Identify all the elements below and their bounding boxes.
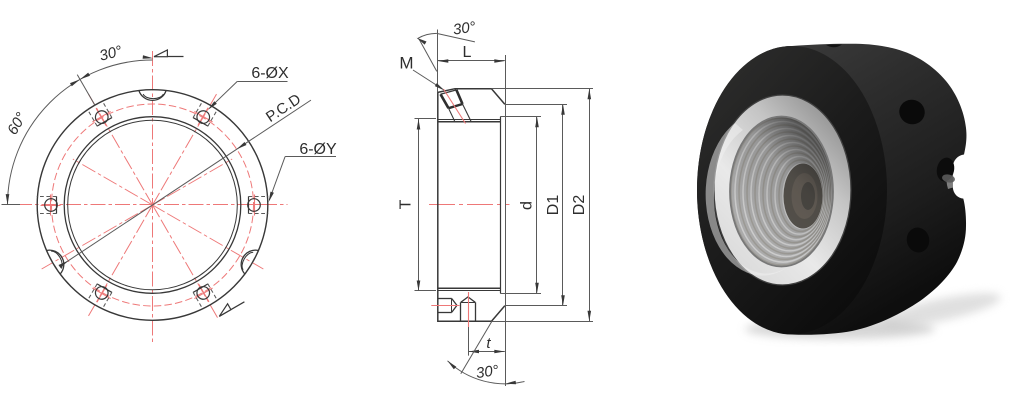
photo body silhouette	[697, 44, 966, 335]
dim 30 deg bottom (hole angle)	[461, 321, 492, 374]
extension line at 180 deg	[2, 204, 21, 206]
photo bore shading	[730, 116, 834, 267]
dim t	[468, 327, 470, 356]
svg-text:30°: 30°	[475, 362, 500, 382]
centerline ray at 120 deg	[89, 94, 145, 190]
section body outline	[438, 89, 505, 322]
centerline ray at 210 deg	[42, 214, 138, 270]
section arrow top	[154, 56, 184, 58]
photo bore highlight crescent	[706, 123, 790, 276]
centerline ray at 60 deg	[161, 94, 217, 190]
svg-text:D1: D1	[545, 195, 562, 216]
centerline ray at 150 deg	[73, 159, 138, 197]
face recess	[500, 117, 502, 293]
centerline ray core at 150 deg	[140, 198, 152, 205]
photo OD hole lower	[904, 225, 931, 254]
dim T	[415, 118, 437, 120]
centerline ray core at 330 deg	[153, 205, 165, 212]
photo thread rings	[731, 118, 832, 265]
front view: locknut face	[2, 43, 338, 345]
radial hole (bottom, with drill point)	[460, 302, 462, 321]
angular dimension arc (30 and 60 deg)	[8, 60, 153, 205]
centerline ray core at 30 deg	[153, 198, 165, 205]
axial hole centerline	[431, 305, 459, 307]
P.C.D leader line (diameter)	[61, 100, 311, 266]
notch Y at 210 deg	[47, 246, 69, 274]
svg-text:P.C.D: P.C.D	[263, 91, 304, 126]
dim D1	[505, 104, 567, 106]
svg-text:M: M	[399, 54, 413, 73]
arc arrowheads at 120 deg	[80, 73, 90, 80]
photo of locknut	[697, 44, 1003, 339]
centerline ray core at 210 deg	[140, 205, 152, 212]
thread bore lines bottom	[438, 287, 500, 289]
photo notch hole	[935, 156, 957, 183]
leader 6-diaY	[285, 156, 336, 158]
svg-text:6-ØY: 6-ØY	[299, 141, 337, 158]
hole X at 180 deg	[37, 195, 61, 216]
M hole centerline	[444, 89, 466, 124]
centerline ray core at 300 deg	[153, 205, 160, 217]
photo bore inner	[784, 164, 823, 229]
photo notch floor highlight	[946, 169, 953, 189]
centerline ray at 300 deg	[161, 220, 218, 319]
dim d	[500, 116, 541, 118]
thread bore lines top	[438, 119, 500, 121]
centerline ray core at 240 deg	[146, 205, 153, 217]
notch Y at 90 deg	[139, 91, 166, 101]
vertical centerline	[152, 51, 154, 345]
photo polished ring	[714, 95, 851, 285]
radial hole centerline	[468, 292, 470, 327]
photo top edge nick	[826, 44, 842, 47]
svg-text:d: d	[519, 201, 536, 210]
photo thread edge ring	[730, 117, 833, 267]
dim L	[437, 30, 439, 93]
pitch circle P.C.D (red dashed)	[52, 104, 254, 306]
hole X at 300 deg	[189, 279, 219, 310]
centerline ray core at 60 deg	[153, 193, 160, 205]
leader 6-diaX	[237, 81, 287, 83]
centerline ray at 330 deg	[167, 214, 263, 270]
arc arrowhead at 180 deg end	[6, 194, 10, 205]
notch Y at 330 deg	[236, 246, 258, 274]
outer circle (OD)	[37, 90, 268, 321]
dim D2	[492, 88, 594, 90]
svg-text:30°: 30°	[98, 43, 124, 65]
extension line at 120 deg	[77, 75, 95, 106]
svg-text:D2: D2	[571, 195, 588, 216]
arc arrowhead at 90 deg end	[143, 55, 154, 59]
centerline ray core at 120 deg	[146, 193, 153, 205]
svg-text:T: T	[398, 199, 415, 209]
photo OD hole upper	[896, 96, 928, 127]
photo thread area base	[730, 117, 833, 267]
svg-text:6-ØX: 6-ØX	[251, 65, 289, 82]
thread major circle	[64, 117, 241, 294]
hole X at 120 deg	[86, 100, 116, 131]
photo shadow	[745, 319, 935, 339]
axial hole (face, with drill point)	[438, 298, 452, 300]
svg-text:30°: 30°	[452, 19, 477, 39]
centerline ray at 30 deg	[167, 159, 232, 197]
centerline ray at 240 deg	[89, 220, 145, 316]
dim 30 deg top (setscrew angle)	[419, 39, 437, 71]
section view	[398, 19, 594, 386]
section horizontal centerline	[429, 204, 510, 206]
svg-text:t: t	[486, 335, 491, 352]
thread minor circle	[68, 120, 238, 290]
hole X at 0 deg	[245, 195, 269, 216]
horizontal centerline	[17, 204, 288, 206]
photo front face	[697, 46, 887, 334]
hole X at 240 deg	[86, 279, 116, 310]
hole X at 60 deg	[189, 100, 219, 131]
section arrow bottom (300 deg)	[219, 302, 244, 317]
svg-text:L: L	[463, 44, 472, 61]
M setscrew hole (threaded, at 30 deg)	[441, 90, 457, 94]
